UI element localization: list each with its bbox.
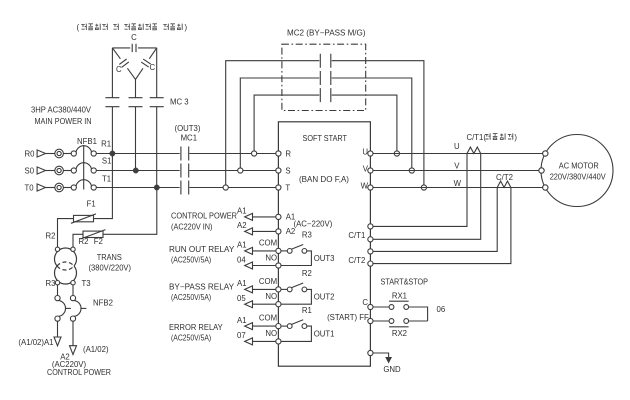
svg-text:COM: COM xyxy=(259,277,277,286)
svg-text:07: 07 xyxy=(237,331,246,340)
svg-text:): ) xyxy=(185,23,188,32)
svg-text:RUN OUT RELAY: RUN OUT RELAY xyxy=(169,245,235,254)
svg-text:V: V xyxy=(454,162,460,171)
capacitor C (left leg of delta) xyxy=(112,48,135,80)
svg-text:BY−PASS RELAY: BY−PASS RELAY xyxy=(169,283,235,292)
svg-text:R3: R3 xyxy=(46,279,56,288)
svg-text:R: R xyxy=(285,149,291,158)
svg-text:04: 04 xyxy=(237,255,246,264)
fuse F2 xyxy=(73,188,157,248)
terminal R (soft starter input) xyxy=(276,149,292,158)
svg-text:C/T2: C/T2 xyxy=(496,173,513,182)
svg-text:T: T xyxy=(285,183,290,192)
relay contact R3 (OUT3) xyxy=(237,231,334,269)
svg-text:MC2 (BY−PASS M/G): MC2 (BY−PASS M/G) xyxy=(287,29,366,38)
contactor MC2 (BY-PASS M/G) label xyxy=(287,29,366,38)
relay contact R2 (OUT2) xyxy=(237,269,334,308)
MC2 contact pole 1 / wire (T to W) xyxy=(226,54,424,188)
fuse holder R0 xyxy=(55,149,64,158)
svg-text:05: 05 xyxy=(237,294,246,303)
svg-text:F1: F1 xyxy=(87,200,96,209)
svg-text:R3: R3 xyxy=(302,231,312,240)
control power lead A2 xyxy=(60,321,109,361)
current transformer C/T2 xyxy=(373,173,513,263)
svg-text:SOFT START: SOFT START xyxy=(303,134,348,143)
svg-text:R2: R2 xyxy=(302,269,312,278)
node: MC2 taps on input rows xyxy=(223,151,257,190)
label (AC-220V) xyxy=(294,220,333,229)
breaker NFB1 xyxy=(71,137,97,190)
svg-text:NFB2: NFB2 xyxy=(93,299,113,308)
terminal C / contact RX1 xyxy=(362,291,445,321)
svg-text:GND: GND xyxy=(383,365,401,374)
svg-text:W: W xyxy=(454,179,462,188)
input terminal S0 xyxy=(25,166,72,175)
MC2 contact pole 2 / wire (S to V) xyxy=(240,71,411,171)
wire W row to motor xyxy=(373,179,543,188)
svg-text:S0: S0 xyxy=(25,166,35,175)
svg-text:T3: T3 xyxy=(81,279,90,288)
svg-text:OUT1: OUT1 xyxy=(314,329,335,338)
label AC220V control power xyxy=(47,360,111,377)
svg-text:3HP AC380/440V: 3HP AC380/440V xyxy=(31,106,92,115)
wire U row to motor xyxy=(373,142,543,153)
svg-text:START&STOP: START&STOP xyxy=(381,278,429,287)
svg-text:CONTROL POWER: CONTROL POWER xyxy=(171,212,237,221)
svg-text:CONTROL POWER: CONTROL POWER xyxy=(47,368,111,377)
transformer TRANS 380V/220V xyxy=(46,247,132,288)
svg-text:S1: S1 xyxy=(102,157,112,166)
terminal V (soft starter output) xyxy=(363,164,373,173)
svg-text:F2: F2 xyxy=(94,237,103,246)
svg-text:COM: COM xyxy=(259,314,277,323)
svg-text:(: ( xyxy=(77,23,80,32)
ground GND xyxy=(368,350,401,374)
wire phase row R1 xyxy=(96,140,276,154)
svg-text:A2: A2 xyxy=(286,227,296,236)
node: MC2 taps on motor rows xyxy=(394,151,426,190)
svg-text:OUT2: OUT2 xyxy=(314,292,335,301)
svg-text:R2: R2 xyxy=(46,232,56,241)
terminal A1 (control power in) xyxy=(237,207,295,222)
svg-text:(AC220V IN): (AC220V IN) xyxy=(171,223,213,232)
input terminal R0 xyxy=(25,149,72,158)
terminal FF / contact RX2 xyxy=(327,313,428,338)
svg-text:C: C xyxy=(116,65,122,74)
svg-text:RX1: RX1 xyxy=(392,291,407,300)
svg-text:U: U xyxy=(454,142,460,151)
svg-text:C: C xyxy=(362,298,368,307)
svg-text:06: 06 xyxy=(437,305,446,314)
MC2 dashed enclosure xyxy=(282,44,366,110)
current transformer C/T1 (external) xyxy=(373,133,517,240)
input terminal T0 xyxy=(25,183,72,192)
svg-text:AC MOTOR: AC MOTOR xyxy=(559,162,599,171)
svg-text:A1: A1 xyxy=(237,279,247,288)
motor M1 (AC MOTOR) xyxy=(539,135,613,207)
terminal pair C/T2 xyxy=(348,249,373,266)
capacitor C (top, delta) xyxy=(112,33,156,52)
terminal U (soft starter output) xyxy=(362,147,373,156)
svg-text:A1: A1 xyxy=(237,207,247,216)
svg-text:NO: NO xyxy=(265,253,277,262)
svg-text:COM: COM xyxy=(259,238,277,247)
junction S1 node xyxy=(133,168,138,173)
svg-text:TRANS: TRANS xyxy=(97,253,122,262)
svg-text:A2: A2 xyxy=(237,221,247,230)
wire phase row S1 xyxy=(96,157,276,171)
svg-text:NO: NO xyxy=(265,292,277,301)
svg-text:C/T1(: C/T1( xyxy=(467,133,487,142)
wire phase row T1 xyxy=(96,174,276,187)
label CONTROL POWER (AC220V IN) xyxy=(171,212,237,232)
fuse F1 xyxy=(46,154,113,248)
svg-text:NO: NO xyxy=(265,329,277,338)
fuse holder T0 xyxy=(55,183,64,192)
svg-text:A1: A1 xyxy=(237,316,247,325)
capacitor C (right leg of delta) xyxy=(136,48,157,80)
svg-text:(BAN DO F,A): (BAN DO F,A) xyxy=(299,175,349,184)
label BY-PASS RELAY xyxy=(169,283,235,303)
label START&STOP xyxy=(381,278,429,287)
junction T1 node xyxy=(154,185,159,190)
svg-text:): ) xyxy=(514,133,517,142)
svg-text:(AC250V/5A): (AC250V/5A) xyxy=(171,256,212,265)
capacitor bank caption (Korean) xyxy=(77,23,188,32)
svg-text:C/T1: C/T1 xyxy=(348,231,365,240)
label ERROR RELAY xyxy=(169,323,223,343)
contactor MC1 (OUT3) xyxy=(175,124,201,195)
svg-text:T1: T1 xyxy=(102,174,111,183)
terminal W (soft starter output) xyxy=(361,181,373,190)
terminal pair C/T1 xyxy=(348,224,373,242)
svg-text:T0: T0 xyxy=(25,183,35,192)
svg-text:(A1/02): (A1/02) xyxy=(83,345,109,354)
svg-text:MAIN POWER IN: MAIN POWER IN xyxy=(35,117,92,126)
svg-text:RX2: RX2 xyxy=(392,329,407,338)
wire V row to motor xyxy=(373,162,539,171)
svg-text:OUT3: OUT3 xyxy=(314,254,335,263)
svg-text:NFB1: NFB1 xyxy=(77,137,97,146)
control power lead A1 xyxy=(18,321,61,347)
svg-text:(AC250V/5A): (AC250V/5A) xyxy=(171,334,212,343)
svg-text:MC 3: MC 3 xyxy=(170,98,189,107)
svg-text:C/T2: C/T2 xyxy=(348,256,365,265)
svg-text:(AC250V/5A): (AC250V/5A) xyxy=(171,293,212,302)
junction R1 node xyxy=(110,151,115,156)
svg-text:C: C xyxy=(131,33,137,42)
svg-text:A1: A1 xyxy=(237,241,247,250)
svg-text:(OUT3): (OUT3) xyxy=(175,124,201,133)
svg-text:ERROR RELAY: ERROR RELAY xyxy=(169,323,223,332)
MC2 contact pole 3 / wire (R to U) xyxy=(254,88,397,153)
svg-text:220V/380V/440V: 220V/380V/440V xyxy=(550,173,607,182)
svg-text:(A1/02)A1: (A1/02)A1 xyxy=(18,338,53,347)
label 3HP AC380/440V MAIN POWER IN xyxy=(31,106,92,127)
svg-text:R1: R1 xyxy=(302,306,312,315)
breaker NFB2 xyxy=(55,285,113,321)
terminal A2 (control power in) xyxy=(237,221,295,236)
soft starter unit U1 (SOFT START / BAN DO F,A) xyxy=(278,122,370,366)
svg-text:W: W xyxy=(361,181,369,190)
svg-text:MC1: MC1 xyxy=(181,134,197,143)
svg-text:(START) FF: (START) FF xyxy=(327,313,369,322)
terminal S (soft starter input) xyxy=(276,166,291,175)
relay contact R1 (OUT1) xyxy=(237,306,334,345)
contactor MC3 contacts xyxy=(105,98,188,107)
svg-text:S: S xyxy=(285,166,290,175)
terminal T (soft starter input) xyxy=(276,183,291,192)
fuse holder S0 xyxy=(55,166,64,175)
svg-text:R1: R1 xyxy=(101,140,111,149)
label RUN OUT RELAY xyxy=(169,245,235,265)
svg-text:(380V/220V): (380V/220V) xyxy=(89,263,132,272)
svg-text:U: U xyxy=(362,147,368,156)
svg-text:R0: R0 xyxy=(25,149,36,158)
svg-text:(AC−220V): (AC−220V) xyxy=(294,220,333,229)
wire cap bank verticals into MC3 and down to phase rows xyxy=(112,48,156,188)
svg-text:V: V xyxy=(363,164,369,173)
